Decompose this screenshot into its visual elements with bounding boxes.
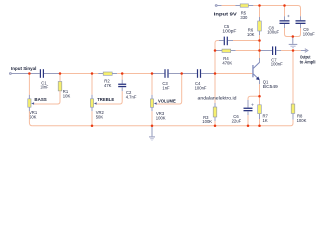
resistor R1 — [58, 74, 70, 99]
svg-text:22uF: 22uF — [232, 118, 242, 123]
svg-text:100K: 100K — [156, 116, 166, 121]
wire emitter column — [259, 80, 261, 85]
wire VR1 bottom to rail — [29, 107, 32, 126]
capacitor C3 — [152, 69, 182, 90]
wire VR1 top branch — [28, 74, 30, 95]
capacitor C8 — [267, 6, 293, 37]
wire top rail corner to C9 — [285, 6, 301, 17]
capacitor C6 — [232, 100, 254, 126]
wire base node to Q1 base — [215, 73, 252, 75]
resistor R2 — [92, 72, 122, 88]
svg-text:andalanelektro.id: andalanelektro.id — [198, 96, 237, 101]
svg-text:100nF: 100nF — [195, 86, 207, 91]
svg-text:100uF: 100uF — [303, 31, 315, 36]
svg-text:100K: 100K — [297, 118, 307, 123]
resistor R7 — [258, 96, 269, 126]
svg-text:470K: 470K — [222, 61, 232, 66]
svg-text:Output: Output — [300, 54, 311, 59]
svg-text:VOLUME: VOLUME — [158, 99, 176, 104]
capacitor C2 — [118, 74, 137, 100]
capacitor C4 — [182, 69, 215, 90]
capacitor C7 — [271, 46, 293, 66]
wire R1 bottom to VR1 wiper — [34, 91, 60, 104]
svg-text:to Ampli: to Ampli — [300, 60, 316, 65]
wire VR2 top branch — [91, 74, 93, 95]
wire collector column — [259, 41, 261, 51]
potentiometer VR3 — [150, 99, 165, 121]
svg-text:100K: 100K — [202, 119, 212, 124]
svg-text:10mF: 10mF — [40, 85, 48, 90]
svg-text:330: 330 — [240, 15, 248, 20]
node input terminal — [10, 73, 30, 75]
svg-text:47K: 47K — [104, 83, 112, 88]
ground rail symbol — [149, 126, 155, 140]
potentiometer VR1 — [28, 99, 38, 120]
svg-text:1K: 1K — [263, 118, 268, 123]
svg-text:BASS: BASS — [34, 97, 46, 102]
resistor R3 — [202, 74, 217, 126]
svg-text:4.7nF: 4.7nF — [126, 95, 137, 100]
node 9V input terminal — [215, 5, 221, 7]
capacitor C1 — [29, 69, 60, 90]
svg-text:50K: 50K — [29, 115, 37, 120]
svg-text:Input Sinyal: Input Sinyal — [11, 66, 36, 71]
wire ground rail — [32, 125, 290, 127]
capacitor C5 — [219, 24, 260, 45]
wire 9V to R5 — [222, 5, 236, 7]
capacitor C9 — [293, 16, 315, 36]
node output terminal — [293, 50, 301, 52]
svg-text:BC549: BC549 — [263, 84, 279, 89]
svg-text:100pF: 100pF — [222, 29, 237, 34]
transistor Q1 — [252, 62, 278, 88]
resistor R5 — [235, 4, 259, 20]
wire base node riser to C5/R4 — [215, 41, 219, 74]
svg-text:100uF: 100uF — [267, 30, 279, 35]
svg-text:50K: 50K — [96, 115, 104, 120]
resistor R8 — [291, 51, 307, 126]
ground supply filter — [289, 37, 298, 48]
resistor R6 — [247, 6, 261, 41]
wire collector to C7 — [260, 50, 273, 52]
wire VR3 bottom to rail — [151, 107, 153, 111]
wire top rail to C8 — [260, 5, 285, 7]
potentiometer VR2 — [90, 99, 104, 120]
wire C2 bottom to VR2 wiper — [97, 87, 123, 104]
svg-text:10K: 10K — [63, 94, 71, 99]
wire VR2 bottom to rail — [91, 107, 93, 111]
svg-text:10K: 10K — [247, 32, 255, 37]
svg-text:TREBLE: TREBLE — [97, 97, 114, 102]
wire node B to node C — [60, 73, 92, 75]
svg-text:1nF: 1nF — [162, 86, 170, 91]
wire emitter to C6 branch — [248, 96, 260, 100]
resistor R4 — [215, 49, 260, 65]
wire VR3 top branch — [151, 74, 153, 95]
svg-text:100nF: 100nF — [271, 62, 283, 67]
wire VR3 wiper riser — [157, 74, 182, 105]
wire node D to node E — [122, 73, 152, 75]
svg-text:Input 9V: Input 9V — [214, 11, 238, 16]
